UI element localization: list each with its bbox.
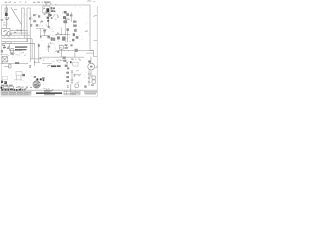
border frame top (2, 4, 90, 6)
wire stub V (40, 28, 42, 39)
diode D3 (73, 21, 76, 23)
note text 1b (44, 91, 50, 94)
specks above revision (67, 85, 69, 88)
capacitor C5 (38, 44, 40, 46)
diode D6 (67, 28, 70, 31)
transistor Q12 (63, 20, 67, 23)
label right of M1 (95, 66, 98, 68)
wire M1 up (90, 57, 92, 64)
connector tab (1, 50, 3, 53)
net label top right (93, 15, 97, 17)
M1 top part (88, 60, 91, 62)
U1 haze (62, 12, 70, 20)
wire U1 down2 (60, 28, 62, 35)
IC U1 body (64, 11, 67, 14)
transistor Q6 (40, 78, 42, 80)
wire down to rule (70, 84, 72, 90)
K1 dark contact (22, 74, 25, 76)
bus labels 2 (3, 36, 19, 38)
capacitor C62 (88, 81, 90, 82)
diode D2 (70, 14, 72, 16)
parts on bus (14, 30, 21, 33)
diode D7 (88, 74, 90, 75)
labels right of col (76, 70, 80, 83)
wire Q1 (42, 32, 49, 36)
value text right cluster (55, 33, 59, 35)
diode D9 (43, 79, 45, 81)
wire loop cap B (27, 8, 30, 62)
capacitor C61 (88, 77, 90, 78)
component strip light tail (22, 89, 26, 91)
thermistor TH1 (75, 49, 78, 52)
sheet header text right (87, 0, 95, 2)
wire v TH1 (74, 52, 76, 57)
relay box K2 (92, 76, 95, 79)
border frame right step (90, 51, 97, 57)
text row boxes (16, 86, 32, 89)
diode D5b (73, 33, 75, 36)
sheet header text (5, 2, 51, 4)
connector J1 box (2, 29, 10, 36)
wire seg L8 (4, 66, 10, 68)
component strip dark bar (1, 89, 21, 91)
choke L9 (9, 65, 11, 68)
U2 haze (59, 44, 69, 51)
faint dashes row55 (16, 55, 26, 56)
labels top middle (29, 14, 43, 27)
wire bus L2 (10, 32, 28, 34)
revision table (64, 90, 80, 95)
resistor R14 (36, 24, 38, 26)
resistor R32 (57, 36, 60, 39)
wire H62 (35, 61, 41, 63)
title line 1 (84, 91, 97, 94)
T1 winding marks (43, 8, 47, 13)
dash row (1, 85, 12, 86)
haze lower mid (43, 58, 61, 63)
value labels T1 (53, 14, 59, 20)
wire plug lead (5, 5, 7, 29)
resistor R52 (63, 60, 66, 62)
wire nested h (86, 52, 94, 54)
wire mid h (56, 34, 70, 36)
fuse F1 (5, 8, 8, 11)
border outer right (96, 6, 98, 97)
small box B1 (3, 86, 8, 88)
part bottom chain (84, 85, 86, 87)
diode D5d (72, 39, 74, 42)
mark above PSU (66, 62, 68, 63)
U2 pin r2 (65, 47, 69, 49)
line filter FL1 (5, 13, 8, 16)
capacitor C11 (38, 15, 40, 17)
sheet header word (44, 2, 50, 3)
resistor R11 (29, 17, 31, 20)
diode bridge DB1 (47, 14, 52, 22)
IC U2 box (59, 45, 63, 49)
wire h28 (36, 28, 45, 30)
wire H59 (30, 58, 42, 60)
labels above L6 (5, 41, 12, 43)
wire M1 down (90, 70, 92, 77)
capacitor C2 (51, 17, 53, 19)
revision text (71, 92, 79, 95)
part number dark bar (36, 93, 62, 94)
wire right top (70, 12, 72, 22)
bus labels (12, 29, 25, 31)
wire long L7 (1, 63, 29, 65)
IC U3 (62, 36, 66, 40)
stamp scribble blob (33, 81, 40, 88)
border frame right inner (89, 5, 91, 51)
capacitor C1 marks (44, 14, 51, 18)
pin labels right col (85, 30, 88, 32)
junction dot V (40, 36, 42, 38)
junction dot H62 (34, 62, 35, 63)
capacitor C31 (51, 37, 53, 40)
resistor R13 (30, 24, 32, 26)
haze mid cluster (43, 29, 56, 39)
wire right chain (88, 70, 90, 86)
capacitor C12 (33, 20, 36, 22)
fold diagonal wire (11, 7, 22, 25)
wire seg h74 (76, 74, 81, 76)
col labels x67 (66, 72, 69, 82)
wire long L10 (42, 56, 84, 58)
transistor Q1 (43, 29, 46, 31)
transistor Q11 (63, 16, 66, 19)
bottom rule (1, 89, 97, 91)
bottom page line (0, 96, 97, 98)
capacitor C51 (65, 65, 68, 67)
wire L11 (56, 59, 64, 61)
wire bus L1 (10, 30, 28, 32)
junction dark (70, 61, 72, 63)
capacitor C72 (73, 74, 76, 77)
part at V4 foot (29, 65, 31, 68)
K1 wires (14, 75, 22, 80)
small box B2 (9, 86, 14, 88)
relay box K3 (92, 80, 95, 83)
junction dots y34 (61, 34, 66, 35)
capacitor C7 (10, 53, 13, 54)
label bold PSU (51, 65, 61, 67)
part on H59 (40, 57, 42, 58)
wire bus L5 (2, 39, 28, 42)
title line 2 (85, 92, 96, 95)
dark dot terminal (1, 87, 3, 89)
labels under L10 (71, 59, 81, 61)
label MAIN PCB row3 (19, 52, 24, 53)
switch S1 (5, 17, 10, 20)
label voltage (3, 23, 8, 26)
transformer T1 core (46, 8, 49, 12)
note specks above rule (44, 88, 54, 90)
haze mid3 (47, 45, 58, 53)
wire h right frame (94, 40, 98, 42)
terminal blob (4, 81, 7, 84)
legend table lines (1, 90, 31, 95)
terminal dark sq (1, 81, 3, 83)
capacitor C73 (71, 79, 74, 82)
labels above T1 (45, 3, 56, 4)
transistor Q5 (36, 78, 38, 80)
legend text (2, 92, 31, 95)
wire mid long h (58, 50, 94, 52)
T2 labels (2, 62, 10, 65)
wire L7b (20, 63, 28, 65)
relay K1 box (16, 72, 22, 76)
resistor R31 (48, 36, 51, 39)
haze mid2 (58, 37, 71, 42)
wire V8 (9, 43, 11, 50)
label MAIN PCB row1 (15, 46, 27, 47)
wire v mid (67, 28, 69, 42)
rectifier D1 (51, 7, 56, 12)
note text 1 (44, 90, 53, 93)
M1 letter (90, 66, 92, 68)
diode D4 (73, 25, 77, 27)
resistor R51 (63, 57, 66, 59)
mark near Q5 (34, 76, 36, 78)
wire seg low (1, 54, 9, 56)
capacitor C71 (71, 71, 74, 72)
diode D5a (74, 29, 77, 32)
wire U1 down (64, 19, 66, 35)
resistor R15 (41, 21, 43, 23)
IC U1 pins (66, 13, 69, 16)
border frame left (1, 5, 3, 90)
wire col v (71, 70, 73, 84)
wire vertical V7 (38, 43, 40, 62)
wire vertical V5 (31, 39, 33, 59)
motor M1 (88, 63, 95, 70)
connector CN3 (75, 84, 78, 87)
connector CN2 (73, 62, 78, 66)
transformer T1 box (43, 6, 50, 13)
U2 pin l (57, 51, 59, 53)
label bold T2 (15, 62, 19, 63)
resistor R21 group (2, 45, 10, 49)
part bottom chain2 (91, 84, 94, 85)
wire loop cap A (22, 8, 25, 39)
wire bus L4 (2, 38, 32, 40)
resistor R12 (33, 14, 36, 16)
U2 pin r1 (65, 44, 68, 46)
resistor R41 (70, 44, 72, 46)
transformer T2 (2, 57, 8, 62)
haze left mid (8, 53, 16, 56)
diode D8 (48, 26, 50, 28)
label lead squiggle (47, 65, 51, 67)
text left of U1 wires (57, 32, 60, 34)
wire vertical V6 (34, 43, 36, 66)
tick mark top (14, 8, 17, 11)
wire bus L6 (2, 42, 35, 44)
scan noise texture (3, 6, 93, 86)
wire mid v48 (47, 44, 49, 52)
label MAIN PCB row2 (15, 49, 27, 50)
value text under cluster (48, 42, 53, 44)
relay RY1 (11, 49, 14, 53)
label AC IN (1, 19, 4, 20)
diode D5c (76, 36, 79, 39)
labels mid28 (45, 25, 50, 28)
capacitor C52 (67, 67, 69, 69)
wire U2 down (60, 49, 62, 57)
wire L12 (42, 63, 52, 65)
J1 text (3, 30, 12, 35)
capacitor C32 (53, 38, 55, 41)
resistor R33 (48, 46, 50, 48)
wire bus L3 (10, 34, 30, 36)
note text 2 (44, 93, 55, 96)
mark near Q6 (42, 77, 45, 79)
wire H50 (10, 50, 22, 52)
wire T1 secondary (48, 13, 50, 28)
faint box bottom left (3, 76, 8, 79)
